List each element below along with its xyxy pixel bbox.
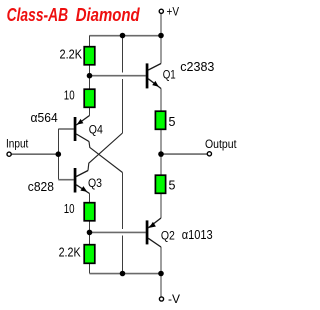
transistor Q1 emitter arrow: [152, 81, 159, 87]
transistor Q2 bar: [146, 220, 149, 244]
svg-text:Q1: Q1: [163, 67, 176, 81]
svg-text:Output: Output: [205, 137, 237, 151]
wire output: [161, 153, 207, 155]
transistor Q2 emitter lead: [148, 218, 161, 228]
svg-text:α1013: α1013: [182, 228, 213, 242]
svg-text:5: 5: [169, 115, 176, 129]
svg-text:Diamond: Diamond: [76, 4, 141, 25]
transistor Q3 bar: [74, 168, 77, 193]
wire Q2 collector vertical: [160, 247, 162, 274]
svg-text:c2383: c2383: [180, 60, 214, 74]
wire Q4 base: [58, 128, 74, 130]
svg-text:α564: α564: [31, 111, 58, 125]
transistor Q2 emitter arrow: [149, 222, 156, 228]
svg-text:-V: -V: [168, 292, 180, 306]
node junction top rail / +V: [158, 33, 164, 39]
wire R6 to Q2 emitter: [160, 194, 162, 218]
svg-text:10: 10: [64, 89, 75, 103]
terminal Output: [207, 152, 211, 156]
svg-text:c828: c828: [28, 180, 54, 194]
svg-text:+V: +V: [167, 4, 180, 18]
resistor 5 top: [155, 111, 165, 129]
wire input node vertical: [57, 129, 59, 180]
wire R5 to R6 through output node: [160, 129, 162, 175]
node junction R3-R4 / Q2 base: [87, 230, 93, 236]
node junction bottom rail / -V: [158, 271, 164, 277]
node junction R1-R2 / Q1 base: [87, 73, 93, 79]
wire drop to R1: [89, 36, 91, 47]
resistor 2.2K top: [84, 47, 95, 65]
transistor Q4 collector lead: [76, 134, 89, 142]
transistor Q3 emitter lead: [76, 185, 89, 194]
resistor 2.2K bottom: [84, 245, 95, 264]
wire Q3 collector diagonal: [88, 133, 123, 171]
wire Q4 emitter from R2: [89, 108, 91, 116]
transistor Q4 emitter lead: [76, 116, 89, 126]
wire Q2 base: [90, 231, 146, 233]
wire input: [11, 153, 58, 155]
svg-text:Q3: Q3: [88, 176, 102, 190]
svg-text:2.2K: 2.2K: [59, 246, 82, 260]
node output junction: [158, 151, 164, 157]
transistor Q1 emitter lead: [148, 79, 161, 89]
wire Q3 emitter to R3: [89, 194, 91, 203]
svg-text:Q4: Q4: [89, 122, 103, 136]
svg-text:Input: Input: [6, 138, 29, 150]
wire +V stub: [160, 13, 162, 35]
svg-text:Q2: Q2: [161, 229, 175, 243]
node junction top rail / Q3 collector: [120, 33, 126, 39]
terminal -V: [159, 297, 163, 301]
svg-text:Class-AB: Class-AB: [7, 4, 69, 25]
transistor Q3 collector lead: [76, 171, 88, 177]
wire -V stub: [160, 274, 162, 297]
terminal +V: [159, 9, 163, 13]
wire +V to Q3 collector vertical: [122, 36, 124, 134]
transistor Q2 collector lead: [148, 238, 161, 247]
wire Q4 collector diagonal to -V: [89, 142, 123, 173]
wire R1 to R2: [89, 66, 91, 89]
svg-text:5: 5: [169, 179, 176, 193]
resistor 10 top: [84, 89, 95, 107]
wire Q4 collector vertical to bottom rail (hops over Q2 base wire): [122, 173, 124, 274]
resistor 10 bottom: [84, 203, 95, 221]
node input junction: [56, 151, 62, 157]
svg-text:2.2K: 2.2K: [60, 47, 83, 61]
svg-text:10: 10: [64, 202, 75, 216]
wire bottom rail: [90, 273, 162, 275]
transistor Q4 bar: [74, 117, 77, 141]
transistor Q1 collector lead: [148, 64, 161, 71]
terminal Input: [7, 152, 11, 156]
node junction bottom rail / Q4 collector: [120, 271, 126, 277]
wire R4 to bottom rail: [89, 264, 91, 274]
wire Q1 base: [90, 75, 146, 77]
wire R3 to R4: [89, 222, 91, 245]
wire Q1 collector vertical: [160, 36, 162, 64]
transistor Q3 emitter arrow: [80, 186, 87, 192]
transistor Q1 bar: [146, 63, 149, 88]
transistor Q4 emitter arrow: [77, 119, 84, 125]
wire Q3 base: [58, 179, 74, 181]
wire Q1 emitter to R5: [160, 89, 162, 111]
resistor 5 bottom: [155, 175, 165, 193]
wire top rail: [90, 35, 162, 37]
